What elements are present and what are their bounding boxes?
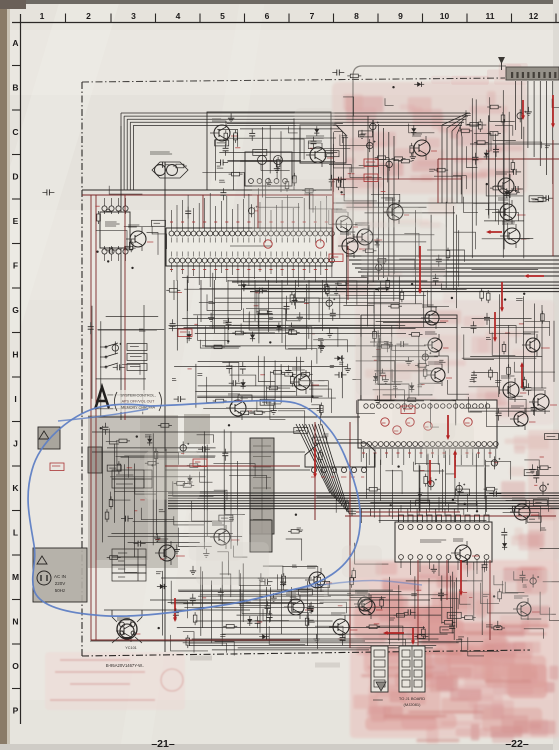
resistor R14-20 bbox=[441, 621, 444, 623]
signal-flow arrow 14 (red) bbox=[429, 460, 431, 484]
wire bbox=[198, 385, 328, 387]
capacitor (electrolytic) R12-21 bbox=[491, 460, 497, 466]
wire bbox=[494, 575, 504, 585]
ground R5-38 bbox=[210, 313, 212, 318]
label R14-11 bbox=[523, 584, 527, 586]
resistor R13-33 bbox=[223, 625, 226, 627]
wire bbox=[202, 172, 244, 198]
wire bbox=[370, 501, 455, 503]
wire bbox=[231, 365, 233, 405]
resistor R3-20 bbox=[490, 187, 493, 189]
wire bbox=[286, 539, 302, 561]
wire bbox=[113, 444, 115, 523]
wire bbox=[406, 580, 483, 582]
wire bbox=[337, 439, 361, 462]
wire bbox=[329, 210, 358, 224]
wire bbox=[269, 126, 271, 174]
capacitor (electrolytic) R12-17 bbox=[540, 485, 546, 491]
resistor R3-24 bbox=[467, 123, 470, 125]
resistor R14-2 bbox=[394, 614, 397, 616]
switch S001 group bbox=[100, 343, 147, 371]
transistor Q022 bbox=[290, 368, 319, 394]
wire bbox=[474, 133, 491, 151]
svg-text:H: H bbox=[12, 350, 18, 360]
svg-text:1: 1 bbox=[40, 11, 45, 21]
transformer T504 (gray) bbox=[250, 438, 274, 534]
marker loop around power block (blue handwriting) bbox=[28, 401, 360, 617]
resistor R10-37 bbox=[145, 462, 148, 464]
boxed test label 7 (red) bbox=[50, 463, 64, 471]
wire bbox=[394, 345, 396, 398]
resistor R12-1 bbox=[537, 467, 540, 469]
wire bbox=[128, 542, 200, 544]
wire bbox=[514, 362, 555, 372]
test-point label R12-22 bbox=[534, 484, 537, 486]
wire bbox=[469, 410, 550, 412]
diode R5-32 bbox=[188, 331, 190, 341]
wire bbox=[346, 206, 426, 208]
test-point label R13-24 bbox=[202, 597, 206, 599]
ground R12-18 bbox=[531, 464, 533, 469]
IC002 memory DIP-8 left bbox=[100, 198, 130, 261]
resistor R13-17 bbox=[187, 635, 189, 638]
capacitor R14-17 bbox=[451, 621, 453, 626]
resistor R3-19 bbox=[535, 198, 538, 200]
wire bbox=[428, 509, 464, 515]
wire bbox=[263, 356, 265, 405]
resistor R7-10 bbox=[320, 403, 322, 406]
signal-flow arrow 8 (red) bbox=[454, 452, 456, 478]
wire bbox=[290, 139, 304, 159]
wire bbox=[414, 576, 416, 619]
label R9-11 bbox=[516, 298, 523, 300]
wire bbox=[100, 321, 102, 417]
resistor R4-6 bbox=[122, 247, 125, 249]
resistor R5-19 bbox=[293, 299, 296, 301]
wire bbox=[106, 316, 159, 318]
wire bbox=[110, 476, 205, 478]
test-point label R5-26 bbox=[312, 333, 315, 335]
wire bbox=[475, 99, 477, 225]
wire bbox=[502, 581, 518, 593]
ground R13-21 bbox=[192, 566, 194, 571]
transistor Q018 bbox=[451, 539, 479, 565]
test-point label R15-4 bbox=[351, 173, 354, 175]
wire bbox=[182, 277, 367, 279]
wire bbox=[431, 598, 458, 609]
wire bbox=[374, 370, 432, 372]
capacitor R13-29 bbox=[175, 608, 177, 613]
svg-text:B-95A20V1467Y-W..: B-95A20V1467Y-W.. bbox=[106, 663, 144, 668]
label R14-16 bbox=[483, 593, 489, 595]
svg-text:10: 10 bbox=[440, 11, 450, 21]
wire bottom rail above border bbox=[90, 640, 365, 642]
test-point label R5-40 bbox=[304, 302, 309, 304]
connector CN701 top-right (gray strip) bbox=[506, 67, 559, 80]
signal-flow arrow 3 (red) bbox=[501, 282, 503, 310]
ground R15-8 bbox=[361, 130, 363, 135]
transistor Q021 bbox=[226, 394, 252, 420]
wire bbox=[206, 326, 241, 346]
wire bbox=[442, 284, 467, 290]
capacitor R14-22 bbox=[440, 589, 442, 594]
wire bbox=[427, 454, 429, 504]
label R15-10 bbox=[342, 135, 348, 137]
wire bbox=[388, 639, 406, 662]
wire bbox=[183, 642, 459, 644]
transformer T505 (gray) bbox=[250, 520, 272, 552]
svg-text:4: 4 bbox=[176, 11, 181, 21]
capacitor R13-27 bbox=[282, 578, 284, 583]
resistor R14-27 bbox=[499, 589, 501, 592]
capacitor R14-15 bbox=[404, 611, 409, 613]
wire bbox=[200, 594, 448, 596]
voltage selector table bbox=[112, 549, 146, 557]
plug P701 above connector bbox=[498, 57, 505, 64]
wire bbox=[202, 571, 204, 627]
wire bbox=[173, 280, 175, 300]
svg-text:TO J1 BOARD: TO J1 BOARD bbox=[399, 696, 425, 701]
capacitor R10-34 bbox=[198, 448, 203, 450]
wire black vertical rail x121 bbox=[120, 126, 122, 420]
diode R10-15 bbox=[149, 436, 151, 446]
wire bbox=[334, 132, 343, 143]
label R9-7 bbox=[470, 379, 474, 381]
node junction R10-17 bbox=[228, 424, 230, 426]
wire bbox=[199, 301, 399, 303]
wire bbox=[484, 220, 524, 222]
wire bbox=[267, 386, 282, 404]
ruler column tick bbox=[511, 14, 513, 23]
wire bbox=[200, 280, 202, 322]
wire bbox=[456, 215, 458, 309]
resistor R14-30 bbox=[366, 626, 369, 628]
wire bbox=[509, 399, 526, 414]
harness outline to CN701 (rounded) bbox=[353, 66, 506, 238]
capacitor (electrolytic) R6-1 bbox=[112, 345, 118, 351]
wire bbox=[375, 384, 409, 398]
node junction R18-12 bbox=[451, 297, 453, 299]
wire bbox=[490, 97, 515, 121]
svg-text:C: C bbox=[12, 127, 18, 137]
wire bbox=[241, 280, 243, 310]
part-number label R7-21 bbox=[238, 395, 252, 401]
capacitor (electrolytic) R15-13 bbox=[370, 123, 376, 129]
IC regulator small L7805 centre-top bbox=[245, 152, 292, 186]
part-number label R4-8 bbox=[152, 220, 166, 226]
wire bbox=[378, 626, 403, 646]
diode R5-7 bbox=[243, 281, 245, 291]
signal-flow arrow 15 (red) bbox=[447, 415, 449, 438]
wire bbox=[409, 124, 435, 133]
ground R7-13 bbox=[273, 406, 275, 411]
ruler column tick bbox=[555, 14, 557, 23]
wire bbox=[453, 206, 455, 290]
wire bbox=[152, 433, 154, 545]
connector CN102 (gray) with warning triangle bbox=[38, 427, 60, 449]
wire bbox=[207, 377, 222, 403]
svg-text:–21–: –21– bbox=[151, 738, 175, 750]
capacitor R14-7 bbox=[522, 571, 524, 576]
capacitor R5-41 bbox=[286, 302, 288, 307]
svg-text:M: M bbox=[12, 572, 19, 582]
wire bbox=[376, 321, 431, 323]
test-point label R7-23 bbox=[188, 368, 192, 370]
wire bbox=[510, 384, 523, 397]
capacitor R9-2 bbox=[498, 409, 500, 414]
part-number label R10-14 bbox=[219, 515, 233, 521]
wire bbox=[109, 429, 119, 445]
resistor R9-5 bbox=[481, 288, 483, 291]
wire bbox=[462, 357, 537, 359]
wire bbox=[523, 127, 525, 259]
resistor R20-1 bbox=[173, 165, 176, 167]
ground R8-8 bbox=[385, 375, 387, 380]
svg-text:YC101: YC101 bbox=[125, 646, 137, 650]
capacitor R18-11 bbox=[438, 255, 440, 260]
wire bbox=[543, 582, 559, 589]
ruler column tick bbox=[288, 14, 290, 23]
ruler row tick bbox=[12, 243, 21, 245]
wire bbox=[454, 232, 476, 249]
capacitor R12-13 bbox=[535, 471, 537, 476]
part-number label R12-23 bbox=[456, 489, 470, 495]
capacitor R5-28 bbox=[255, 290, 260, 292]
wire bbox=[350, 167, 382, 177]
resistor R10-25 bbox=[155, 448, 157, 451]
wire bbox=[376, 343, 378, 380]
ruler row tick bbox=[12, 599, 21, 601]
node junction R10-23 bbox=[100, 427, 102, 429]
part-number label R13-20 bbox=[298, 589, 312, 595]
test-point label R14-18 bbox=[469, 597, 472, 599]
label R14-26 bbox=[411, 593, 417, 595]
wire bbox=[486, 461, 511, 479]
transistor Q019 bbox=[210, 523, 239, 549]
test-point label R22-5 bbox=[257, 621, 262, 623]
wire bbox=[419, 466, 421, 511]
capacitor R10-10 bbox=[224, 449, 226, 454]
wire bbox=[220, 574, 231, 597]
wire bbox=[456, 460, 490, 466]
ground R8-22 bbox=[377, 396, 379, 401]
wire bbox=[524, 460, 539, 476]
resistor R12-15 bbox=[484, 488, 487, 490]
wire bbox=[392, 369, 402, 382]
diode R7-20 bbox=[334, 357, 344, 359]
wire bbox=[135, 477, 156, 494]
label R13-7 bbox=[347, 592, 351, 594]
label R7-28 bbox=[197, 373, 202, 375]
wire bbox=[123, 464, 125, 549]
wire bbox=[222, 633, 447, 635]
capacitor R5-27 bbox=[172, 319, 174, 324]
wire bbox=[468, 637, 484, 656]
resistor R2-4 bbox=[347, 75, 350, 77]
wire bbox=[195, 333, 406, 335]
test-point label R14-28 bbox=[374, 623, 380, 625]
ground R1-9 bbox=[276, 164, 278, 169]
wire bbox=[133, 521, 212, 523]
capacitor R4-3 bbox=[105, 249, 110, 251]
wire bbox=[549, 608, 559, 621]
wire power-area top rail bbox=[88, 416, 360, 418]
capacitor R7-16 bbox=[335, 374, 340, 376]
resistor R5-42 bbox=[211, 346, 214, 348]
part-number label R15-17 bbox=[359, 131, 373, 137]
diode R3-8 bbox=[506, 188, 508, 198]
resistor R3-25 bbox=[512, 160, 514, 163]
wire bbox=[280, 364, 282, 403]
wire bbox=[141, 508, 173, 520]
resistor R12-19 bbox=[425, 474, 427, 477]
wire bbox=[215, 297, 400, 299]
wire (red) 13 bbox=[91, 639, 300, 641]
box frame centre video sub-circuit bbox=[207, 112, 331, 190]
wire bbox=[508, 223, 534, 239]
wire (red) 11 bbox=[437, 159, 439, 203]
test-point label R12-5 bbox=[494, 462, 498, 464]
diode R17-4 bbox=[504, 540, 506, 550]
resistor R1-7 bbox=[235, 130, 237, 133]
capacitor R1-11 bbox=[251, 129, 253, 134]
resistor R8-23 bbox=[409, 333, 412, 335]
AC plug symbol bbox=[37, 571, 51, 585]
resistor R1-2 bbox=[277, 157, 279, 160]
resistor R10-24 bbox=[118, 461, 120, 464]
wire (red) 14 bbox=[165, 465, 300, 467]
wire bbox=[266, 180, 303, 198]
label R5-1 bbox=[337, 281, 343, 283]
wire bbox=[169, 325, 406, 327]
wire bbox=[188, 643, 227, 653]
wire bbox=[503, 513, 539, 520]
resistor R18-13 bbox=[375, 289, 378, 291]
wire bbox=[348, 241, 426, 243]
resistor R1-29 bbox=[302, 189, 305, 191]
wire bbox=[445, 451, 447, 506]
label R1-4 bbox=[219, 179, 224, 181]
connector drop wires top-right bbox=[515, 81, 517, 130]
svg-text:12: 12 bbox=[529, 11, 539, 21]
capacitor R13-3 bbox=[192, 594, 194, 599]
capacitor R22-1 bbox=[261, 581, 266, 583]
capacitor (electrolytic) R15-11 bbox=[386, 161, 392, 167]
resistor R5-21 bbox=[335, 283, 338, 285]
signal-flow arrow 11 (red) bbox=[174, 598, 176, 620]
label R14-10 bbox=[486, 624, 493, 626]
wire bbox=[357, 400, 375, 413]
wire bbox=[192, 501, 222, 521]
diode R1-18 bbox=[316, 126, 318, 136]
ruler row tick bbox=[12, 421, 21, 423]
wire bbox=[487, 402, 520, 427]
wire bbox=[259, 580, 261, 633]
wire bbox=[346, 294, 426, 296]
resistor R7-26 bbox=[291, 374, 293, 377]
wire bbox=[153, 453, 178, 465]
wire bbox=[230, 375, 256, 386]
wire bbox=[427, 250, 464, 262]
wire bbox=[332, 132, 334, 192]
resistor R8-18 bbox=[405, 399, 408, 401]
wire bbox=[370, 342, 387, 352]
svg-text:I: I bbox=[14, 394, 16, 404]
test-point label R4-4 bbox=[95, 205, 99, 207]
ruler row tick bbox=[12, 465, 21, 467]
wire bbox=[343, 137, 345, 189]
label R13-25 bbox=[220, 634, 225, 636]
wire bbox=[379, 519, 487, 521]
wire bbox=[242, 593, 272, 614]
diode R3-13 bbox=[485, 150, 487, 160]
ground R14-19 bbox=[433, 564, 435, 569]
wire bbox=[195, 391, 296, 393]
node junction R9-21 bbox=[504, 298, 506, 300]
vertical bus x367-395 top-right bbox=[367, 116, 369, 284]
capacitor R10-8 bbox=[121, 518, 126, 520]
wire bbox=[392, 470, 394, 519]
resistor R15-6 bbox=[375, 157, 378, 159]
wire bbox=[102, 426, 104, 543]
capacitor R6-3 bbox=[90, 322, 92, 327]
resistor R22-2 bbox=[306, 615, 308, 618]
wire bbox=[469, 387, 499, 397]
node junction R12-24 bbox=[452, 499, 454, 501]
ruler row tick bbox=[12, 154, 21, 156]
wire bbox=[197, 395, 322, 397]
resistor R10-13 bbox=[174, 482, 177, 484]
wire bbox=[230, 431, 232, 549]
wire bbox=[484, 467, 486, 499]
label R7-25 bbox=[339, 361, 343, 363]
resistor R3-2 bbox=[479, 119, 481, 122]
wire (red) 8 bbox=[347, 246, 349, 300]
test-point label R14-8 bbox=[463, 592, 467, 594]
wire bbox=[109, 186, 142, 194]
wire bbox=[155, 453, 157, 536]
wire bbox=[352, 379, 360, 400]
wire bbox=[280, 131, 282, 192]
ground R7-7 bbox=[347, 364, 349, 369]
label R7-6 bbox=[330, 365, 334, 367]
signal-flow arrow 10 (red) bbox=[460, 560, 462, 594]
board A outline left edge (dash-dot) bbox=[81, 82, 83, 656]
wire horizontal feed line row D bbox=[82, 189, 332, 191]
wire bbox=[385, 98, 394, 105]
resistor R4-7 bbox=[98, 211, 100, 214]
signal-flow arrow 5 (red) bbox=[521, 364, 523, 388]
resistor R13-34 bbox=[194, 612, 196, 615]
wire bbox=[486, 185, 523, 196]
node junction R2-1 bbox=[392, 86, 394, 88]
wire bbox=[239, 570, 271, 586]
wire bbox=[481, 565, 483, 635]
wire bbox=[215, 139, 217, 180]
wire bbox=[110, 492, 130, 501]
capacitor R3-7 bbox=[542, 197, 547, 199]
label R14-5 bbox=[458, 636, 464, 638]
wire bbox=[328, 584, 365, 595]
diode R8-13 bbox=[375, 373, 377, 383]
wire bbox=[379, 338, 381, 402]
wire bbox=[380, 460, 382, 501]
wire bbox=[472, 269, 539, 271]
wire bbox=[538, 466, 559, 476]
transistor Q013 bbox=[510, 498, 539, 524]
resistor R7-19 bbox=[299, 373, 302, 375]
label R13-32 bbox=[246, 599, 250, 601]
